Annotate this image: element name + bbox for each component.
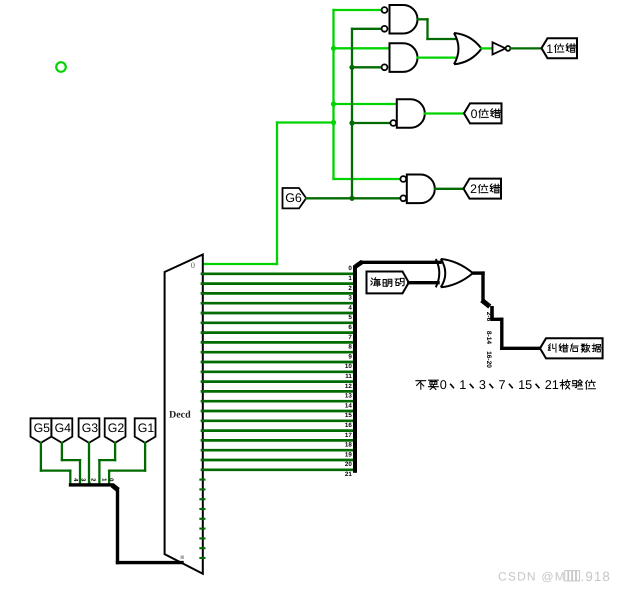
svg-text:0: 0 [440, 378, 447, 392]
svg-text:G4: G4 [55, 421, 72, 435]
wire U4 output to tunnel 2位错 [435, 188, 464, 190]
svg-text:Decd: Decd [169, 410, 191, 421]
wire decoder output 12 to splitter SP1 [202, 380, 353, 383]
svg-text:7: 7 [348, 334, 352, 341]
AND gate U2 with inverted bottom input [382, 43, 418, 72]
wire G2 to splitter SP3 leg1 [99, 443, 115, 483]
svg-text:1: 1 [348, 275, 352, 282]
svg-text:10: 10 [345, 363, 352, 370]
inverter U6 [493, 42, 511, 54]
wire decoder output 20 to splitter SP1 [202, 459, 353, 462]
svg-text:7: 7 [499, 378, 506, 392]
wire decoder output 17 to splitter SP1 [202, 429, 353, 432]
svg-text:15: 15 [345, 412, 352, 419]
OR gate U5 [454, 33, 482, 64]
wire decoder output 18 to splitter SP1 [202, 439, 353, 442]
node SEL0-J2 [331, 101, 336, 106]
svg-text:13: 13 [345, 393, 352, 400]
wire decoder output 7 to splitter SP1 [202, 331, 353, 334]
splitter SP3 bit labels [72, 478, 115, 482]
svg-text:2: 2 [89, 478, 96, 482]
svg-text:3: 3 [479, 378, 486, 392]
svg-text:18: 18 [345, 442, 352, 449]
svg-text:8-14: 8-14 [485, 331, 492, 345]
wire decoder output 8 to splitter SP1 [202, 341, 353, 344]
svg-text:5: 5 [348, 314, 352, 321]
wire decoder output 5 to splitter SP1 [202, 312, 353, 315]
wire net G6 to gate U2 bottom input [352, 66, 381, 68]
bus wire SP2 to tunnel 纠错后数据 [492, 319, 540, 348]
svg-text:4: 4 [348, 304, 352, 311]
wire net SEL0 to gate U4 top input [334, 178, 401, 180]
tunnel 2位错 [464, 179, 502, 199]
svg-text:G1: G1 [138, 421, 155, 435]
svg-text:15: 15 [518, 378, 532, 392]
note text 不要0、1、3、7、15、21校验位 [416, 378, 595, 392]
wire net SEL0 to gate U3 top input [334, 103, 397, 105]
node G6-J2 [349, 120, 354, 125]
node G6-J3 [349, 196, 354, 201]
AND gate U4 with two inverted inputs [400, 175, 434, 204]
AND gate U3 with inverted bottom input [390, 99, 424, 127]
svg-text:2: 2 [348, 285, 352, 292]
svg-text:.918: .918 [581, 569, 611, 584]
svg-text:14: 14 [345, 402, 352, 409]
tunnel G1 [135, 418, 156, 443]
wire decoder output 4 to splitter SP1 [202, 302, 353, 305]
svg-text:1: 1 [546, 42, 553, 56]
svg-text:12: 12 [345, 383, 352, 390]
wire net SEL0 to gate U2 top input [334, 47, 390, 49]
svg-text:8: 8 [348, 344, 352, 351]
tunnel 海明码 [367, 272, 409, 294]
splitter SP1 bit labels 0-21 [345, 265, 352, 478]
node SEL0-J1 [331, 46, 336, 51]
svg-text:G5: G5 [34, 421, 51, 435]
wire U3 output to tunnel 0位错 [425, 112, 464, 114]
svg-text:4: 4 [72, 478, 79, 482]
svg-text:17: 17 [345, 432, 352, 439]
svg-text:16-20: 16-20 [485, 351, 492, 368]
svg-text:3: 3 [348, 295, 352, 302]
wire net G6 vertical trunk [351, 29, 353, 199]
wire net SEL0 to gate U1 top input [334, 9, 382, 11]
svg-text:1: 1 [101, 478, 108, 482]
wire decoder output 11 to splitter SP1 [202, 370, 353, 373]
svg-text:9: 9 [348, 353, 352, 360]
wire decoder output 16 to splitter SP1 [202, 419, 353, 422]
tunnel 0位错 [464, 103, 502, 123]
decoder U7 output-0 index label [191, 260, 195, 270]
wire G1 to splitter SP3 leg0 [109, 443, 145, 483]
wire decoder output 15 to splitter SP1 [202, 410, 353, 413]
svg-text:21: 21 [545, 378, 559, 392]
wire decoder output 2 to splitter SP1 [202, 282, 353, 285]
wire decoder output 9 to splitter SP1 [202, 351, 353, 354]
wire net G6 to gate U1 bottom input [352, 28, 381, 30]
wire G5 to splitter SP3 leg4 [41, 443, 70, 483]
svg-text:0: 0 [191, 260, 195, 270]
wire decoder output 19 to splitter SP1 [202, 449, 353, 452]
tunnel G5 [31, 418, 52, 443]
svg-text:0: 0 [471, 107, 478, 121]
tunnel G3 [79, 418, 100, 443]
wire decoder output 10 to splitter SP1 [202, 361, 353, 364]
wire net SEL0 vertical trunk [332, 10, 334, 179]
wire decoder output 14 to splitter SP1 [202, 400, 353, 403]
svg-text:0: 0 [348, 265, 352, 272]
decoder U7 select marker [181, 556, 184, 559]
bus wire SP1 to XOR U8 top input [363, 261, 441, 264]
wire decoder output 21 to splitter SP1 [202, 468, 353, 471]
AND gate U1 with inverted inputs [382, 5, 418, 34]
svg-text:G2: G2 [108, 421, 125, 435]
wire net SEL0 from decoder output 0 [202, 123, 334, 265]
svg-text:CSDN @M: CSDN @M [498, 570, 566, 584]
svg-text:G3: G3 [82, 421, 99, 435]
decoder U7 unconnected output stubs 22-30 [200, 480, 204, 558]
svg-text:19: 19 [345, 451, 352, 458]
wire G4 to splitter SP3 leg3 [62, 443, 80, 483]
svg-text:6: 6 [348, 324, 352, 331]
output pin P1 [56, 62, 66, 72]
bus wire U8 output [473, 273, 483, 301]
wire decoder output 1 to splitter SP1 [202, 272, 353, 275]
watermark text [498, 569, 611, 584]
tunnel G2 [105, 418, 126, 443]
wire G3 to splitter SP3 leg2 [88, 443, 91, 483]
node G6-J1 [349, 65, 354, 70]
wire U2 output to OR gate U5 [418, 56, 456, 58]
bus wire 海明码 to XOR U8 bottom input [409, 281, 438, 284]
svg-text:20: 20 [345, 461, 352, 468]
svg-text:16: 16 [345, 422, 352, 429]
svg-text:2: 2 [470, 182, 477, 196]
svg-text:21: 21 [345, 471, 352, 478]
tunnel G4 [52, 418, 73, 443]
splitter SP2 trunk and spine [482, 300, 494, 320]
wire U1 output to OR gate U5 [418, 19, 456, 39]
node SEL0-J3 [331, 120, 336, 125]
decoder U7 name label [169, 410, 191, 421]
bus wire SP3 to decoder U7 select input [118, 489, 183, 562]
splitter SP2 range labels [485, 312, 492, 369]
svg-text:G6: G6 [285, 191, 302, 205]
splitter SP1 spine and trunk [353, 262, 363, 473]
wire U6 output to tunnel 1位错 [510, 47, 541, 49]
wire decoder output 3 to splitter SP1 [202, 292, 353, 295]
tunnel G6 [283, 188, 307, 208]
decoder U7 Decd body [165, 255, 203, 574]
XOR gate U8 [436, 259, 473, 287]
wire net G6 to gate U3 bottom input [352, 122, 390, 124]
wire U5 output to inverter U6 [482, 47, 493, 49]
wire decoder output 13 to splitter SP1 [202, 390, 353, 393]
wire decoder output 6 to splitter SP1 [202, 321, 353, 324]
wire net G6 horizontal [306, 197, 400, 199]
splitter SP3 spine and trunk [69, 483, 118, 490]
svg-text:1: 1 [459, 378, 466, 392]
svg-text:11: 11 [345, 373, 352, 380]
tunnel 1位错 [542, 38, 578, 58]
tunnel 纠错后数据 [540, 338, 603, 358]
